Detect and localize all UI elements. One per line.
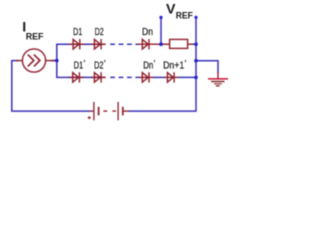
wire source right [51, 60, 57, 62]
node top row right of resistor [194, 42, 198, 46]
wire source left [11, 60, 18, 62]
node top row left of resistor [159, 42, 163, 46]
wire right vertical [195, 17, 197, 111]
svg-text:D1: D1 [74, 61, 84, 72]
svg-text:V: V [166, 2, 176, 18]
wire vref left stub [160, 17, 162, 44]
wire top row dashed segment [110, 43, 139, 45]
svg-text:Dn+1: Dn+1 [163, 61, 184, 72]
wire ground tap [196, 61, 218, 73]
svg-text:Dn: Dn [143, 61, 153, 72]
label VREF [166, 2, 193, 21]
svg-text:D1: D1 [73, 27, 83, 38]
wire source junction vertical [56, 44, 58, 77]
wire top row right of resistor [193, 43, 197, 45]
diode D1' [69, 72, 84, 82]
ground [208, 72, 228, 86]
resistor R1 [162, 39, 193, 48]
wire bottom row mid segment [153, 76, 165, 78]
battery B1 [88, 102, 129, 120]
wire bottom run left of battery [11, 110, 90, 112]
diode D1 [69, 39, 85, 49]
wire top row left segment [56, 43, 105, 45]
svg-text:Dn: Dn [142, 27, 153, 38]
svg-text:REF: REF [26, 31, 44, 42]
label IREF [22, 19, 43, 42]
svg-text:D2: D2 [95, 27, 104, 38]
diode Dn' [139, 72, 153, 82]
wire left vertical [11, 61, 13, 112]
wire bottom row right segment [178, 76, 196, 78]
diode D2' [91, 72, 106, 82]
node ground tap [194, 59, 198, 63]
node vref right terminal [194, 16, 197, 19]
wire bottom row left segment [56, 76, 105, 78]
wire bottom run right of battery [129, 110, 197, 112]
node bottom row right [194, 76, 198, 80]
node vref left terminal [159, 16, 162, 19]
svg-text:D2: D2 [94, 61, 104, 72]
current source U1 [16, 49, 55, 72]
diode Dn+1' [164, 72, 178, 82]
diode D2 [91, 39, 106, 49]
diode Dn [138, 39, 160, 49]
svg-text:REF: REF [176, 10, 193, 21]
node at source output [55, 59, 59, 63]
wire bottom row dashed segment [110, 76, 139, 78]
